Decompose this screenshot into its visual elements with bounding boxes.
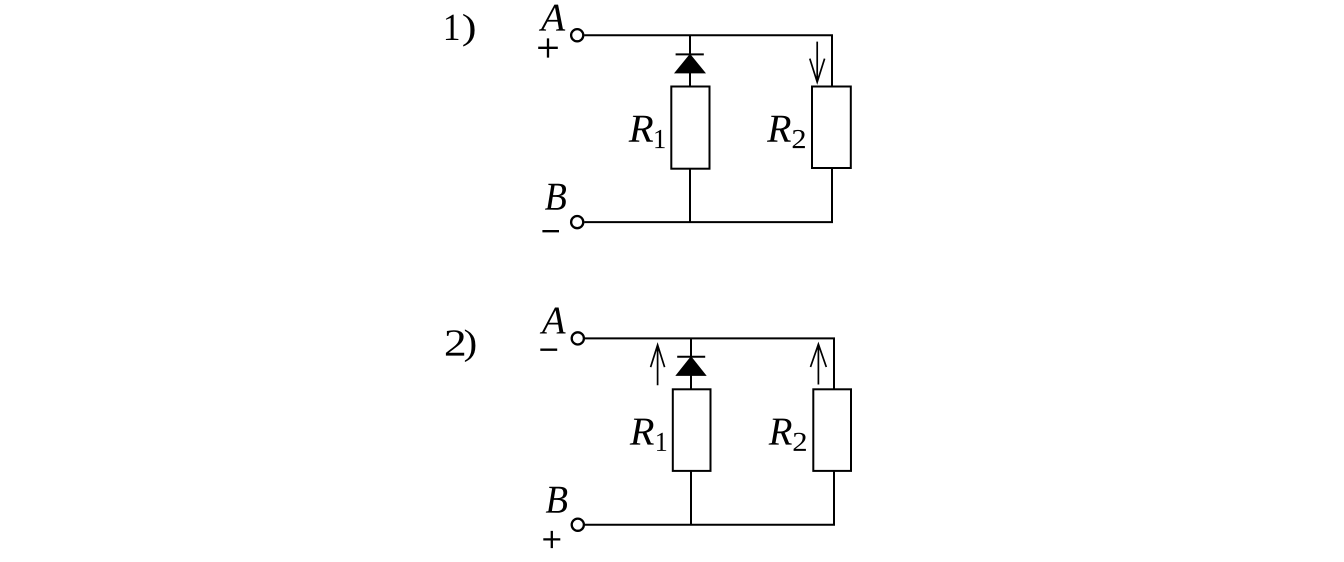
wire: R1 bottom to bottom rail xyxy=(689,169,691,222)
label 1) xyxy=(446,15,459,40)
node A xyxy=(540,308,566,334)
diode cathode bar xyxy=(676,53,704,55)
terminal B circle xyxy=(572,519,584,531)
current arrow (up) on diode branch xyxy=(651,345,665,386)
wire: diode to resistor R1 xyxy=(690,376,692,390)
terminal A circle xyxy=(571,29,583,41)
resistor R2 body xyxy=(813,389,851,471)
resistor R1 body xyxy=(673,389,711,471)
label R1 xyxy=(630,419,654,445)
node B xyxy=(545,184,566,210)
label R2 xyxy=(767,116,791,142)
current arrow (up) on R2 branch xyxy=(811,344,827,385)
wire: diode to resistor R1 xyxy=(689,73,691,87)
wire: diode branch stem from top rail xyxy=(689,35,691,54)
resistor R2 body xyxy=(812,87,851,169)
resistor R1 body xyxy=(671,87,709,169)
current arrow (down) on R2 branch xyxy=(810,42,825,82)
wire: bottom rail from terminal B to R2 branch xyxy=(585,471,834,525)
polarity + at terminal A xyxy=(538,38,558,57)
diode (filled triangle, pointing up) xyxy=(674,54,706,74)
polarity − at terminal B xyxy=(542,230,559,232)
wire: top rail from terminal A to right branch corner xyxy=(585,338,834,389)
diode cathode bar xyxy=(677,356,705,358)
wire: diode branch stem from top rail xyxy=(690,338,692,356)
diode (filled triangle, pointing up) xyxy=(675,356,706,376)
wire: top rail from terminal A to right branch corner xyxy=(584,35,832,86)
wire: bottom rail from terminal B to R2 branch xyxy=(584,168,832,222)
label R1 xyxy=(629,116,653,142)
terminal B circle xyxy=(571,216,583,228)
node B xyxy=(546,487,567,513)
polarity + at terminal B xyxy=(543,531,560,548)
label 2) xyxy=(446,330,464,355)
label R2 xyxy=(769,419,792,445)
node A xyxy=(539,5,565,31)
polarity − at terminal A xyxy=(540,349,557,351)
terminal A circle xyxy=(572,332,584,344)
wire: R1 bottom to bottom rail xyxy=(690,471,692,525)
